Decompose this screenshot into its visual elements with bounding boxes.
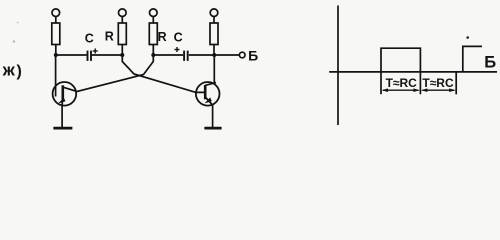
svg-text:C: C xyxy=(174,31,183,45)
svg-text:R: R xyxy=(158,30,167,44)
svg-text:ж: ж xyxy=(2,61,16,80)
svg-text:C: C xyxy=(85,31,94,45)
svg-text:R: R xyxy=(105,29,114,43)
svg-text:T≈RC: T≈RC xyxy=(422,76,454,90)
svg-text:Б: Б xyxy=(248,47,258,63)
svg-text:Б: Б xyxy=(484,54,496,72)
svg-text:): ) xyxy=(17,63,22,80)
svg-text:T≈RC: T≈RC xyxy=(386,76,418,90)
